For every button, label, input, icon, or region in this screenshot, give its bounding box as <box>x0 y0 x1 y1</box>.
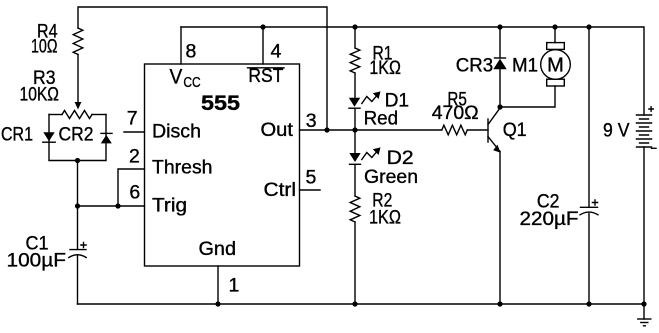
op-amp/timer U1 555 box <box>145 64 300 266</box>
label C2 value 220uF <box>520 208 579 230</box>
junction C2 top <box>586 24 591 29</box>
label C2 <box>537 191 560 213</box>
diode CR2 (on right edge, pointing up) <box>101 133 112 143</box>
label Thresh <box>152 157 213 179</box>
label R5 <box>447 89 467 111</box>
svg-text:1KΩ: 1KΩ <box>369 207 401 229</box>
label Trig <box>152 195 187 217</box>
junction R1 top <box>352 24 357 29</box>
svg-text:Ctrl: Ctrl <box>264 179 297 201</box>
junction pin2-pin6 <box>115 203 120 208</box>
label D1 <box>385 90 410 112</box>
svg-text:8: 8 <box>186 41 197 63</box>
label R3 <box>33 67 56 89</box>
junction box bottom <box>75 158 80 163</box>
svg-text:M: M <box>547 55 564 77</box>
pin 4 wire RST <box>262 27 264 64</box>
svg-text:CR2: CR2 <box>59 124 94 146</box>
label Ctrl <box>264 179 297 201</box>
junction R2 bottom <box>352 301 357 306</box>
diode CR1 (on left edge, pointing down) <box>43 132 55 142</box>
label D2 <box>387 147 414 169</box>
label C1 <box>26 233 49 255</box>
label 555 <box>201 92 240 115</box>
svg-text:6: 6 <box>129 182 140 204</box>
svg-text:CC: CC <box>183 74 200 91</box>
label Gnd <box>199 238 237 260</box>
svg-text:1KΩ: 1KΩ <box>369 57 401 79</box>
CR1/CR2 box side wires <box>49 115 106 161</box>
svg-text:Red: Red <box>364 108 399 130</box>
junction M1 top <box>552 24 557 29</box>
label Disch <box>152 121 201 143</box>
label R4 value 10 ohm <box>31 36 58 58</box>
junction pin1/rail <box>215 301 220 306</box>
label R4 <box>37 21 58 43</box>
wire C1 to bottom rail <box>77 256 79 304</box>
junction battery/rail <box>641 301 646 306</box>
LED D2 (green) <box>349 130 380 196</box>
svg-text:M1: M1 <box>512 55 538 77</box>
wire R5 to Q1 base <box>467 129 488 131</box>
label R5 value 470 ohm <box>432 102 479 124</box>
label Green <box>364 166 418 188</box>
pin 7 stub Disch <box>124 131 145 133</box>
junction C2 bottom <box>586 301 591 306</box>
potentiometer R3 (zigzag on box top edge) <box>49 111 106 119</box>
label 9 V <box>603 120 630 142</box>
pin number 3 <box>306 110 317 132</box>
ground <box>638 304 651 326</box>
label R1 <box>373 43 393 65</box>
bottom ground rail <box>78 303 645 305</box>
resistor R1 <box>350 27 360 73</box>
pin 1 wire Gnd <box>217 266 219 304</box>
label R3 value 10K ohm <box>20 84 60 106</box>
svg-text:CR1: CR1 <box>1 124 33 146</box>
resistor R4 <box>73 28 83 55</box>
capacitor C1 <box>69 242 86 257</box>
pin number 7 <box>127 108 138 130</box>
svg-text:470Ω: 470Ω <box>432 102 479 124</box>
wire Q1 emitter to rail <box>499 152 501 305</box>
junction pin4/rail <box>260 24 265 29</box>
transistor Q1 <box>488 108 500 153</box>
svg-text:220µF: 220µF <box>520 208 579 230</box>
wire box bottom down to C1 <box>77 161 79 250</box>
resistor R2 <box>350 196 360 304</box>
resistor R5 <box>442 125 468 135</box>
svg-text:9 V: 9 V <box>603 120 630 142</box>
pin 3 Out wire <box>300 129 442 131</box>
pin number 5 <box>306 167 317 189</box>
pin 6 wire Trig <box>78 205 145 207</box>
wire R4 bottom to R3 wiper <box>77 55 79 104</box>
svg-text:3: 3 <box>306 110 317 132</box>
svg-text:Out: Out <box>261 119 294 141</box>
svg-text:V: V <box>170 66 183 89</box>
label Red <box>364 108 399 130</box>
svg-text:Trig: Trig <box>152 195 187 217</box>
wire top-left rail from R4 top to Out node <box>78 7 327 130</box>
svg-text:5: 5 <box>306 167 317 189</box>
pin 5 stub Ctrl <box>300 189 321 191</box>
Vcc top rail <box>181 27 644 115</box>
capacitor C2 <box>580 27 598 304</box>
svg-text:7: 7 <box>127 108 138 130</box>
label CR2 <box>59 124 94 146</box>
label Vcc <box>170 66 201 92</box>
pin number 2 <box>129 146 140 168</box>
pin number 8 <box>186 41 197 63</box>
label C1 value 100uF <box>7 250 67 272</box>
svg-text:10Ω: 10Ω <box>31 36 58 58</box>
svg-text:Disch: Disch <box>152 121 201 143</box>
svg-text:555: 555 <box>201 92 240 115</box>
label R2 value 1K ohm <box>369 207 401 229</box>
label M inside motor <box>547 55 564 77</box>
svg-text:4: 4 <box>271 41 282 63</box>
label Q1 <box>503 119 527 141</box>
pin number 6 <box>129 182 140 204</box>
svg-text:100µF: 100µF <box>7 250 67 272</box>
junction at trig line <box>75 203 80 208</box>
svg-text:Gnd: Gnd <box>199 238 237 260</box>
svg-text:1: 1 <box>229 275 240 297</box>
pin number 1 <box>229 275 240 297</box>
diode CR3 (flyback, pointing up) <box>493 27 506 107</box>
label CR3 <box>456 55 493 77</box>
svg-text:Q1: Q1 <box>503 119 527 141</box>
junction out/led column <box>352 127 357 132</box>
label R2 <box>372 190 392 212</box>
pin 8 wire Vcc <box>180 27 182 64</box>
wiper arrow onto R3 <box>75 102 82 110</box>
LED D1 (red) <box>349 73 381 130</box>
motor M1 <box>500 27 570 107</box>
wire battery to rail <box>643 147 645 304</box>
junction out/top-rail drop <box>324 127 329 132</box>
label CR1 <box>1 124 33 146</box>
junction emitter/rail <box>497 301 502 306</box>
svg-text:10KΩ: 10KΩ <box>20 84 60 106</box>
battery B1 9V <box>637 107 657 149</box>
label RST with overline <box>248 65 285 87</box>
svg-text:2: 2 <box>129 146 140 168</box>
junction collector node <box>497 104 502 109</box>
junction CR3 top <box>497 24 502 29</box>
svg-text:CR3: CR3 <box>456 55 493 77</box>
pin number 4 <box>271 41 282 63</box>
svg-text:Green: Green <box>364 166 418 188</box>
label R1 value 1K ohm <box>369 57 401 79</box>
pin 2 wire Thresh <box>118 169 145 206</box>
svg-text:Thresh: Thresh <box>152 157 213 179</box>
label M1 <box>512 55 538 77</box>
label Out <box>261 119 294 141</box>
